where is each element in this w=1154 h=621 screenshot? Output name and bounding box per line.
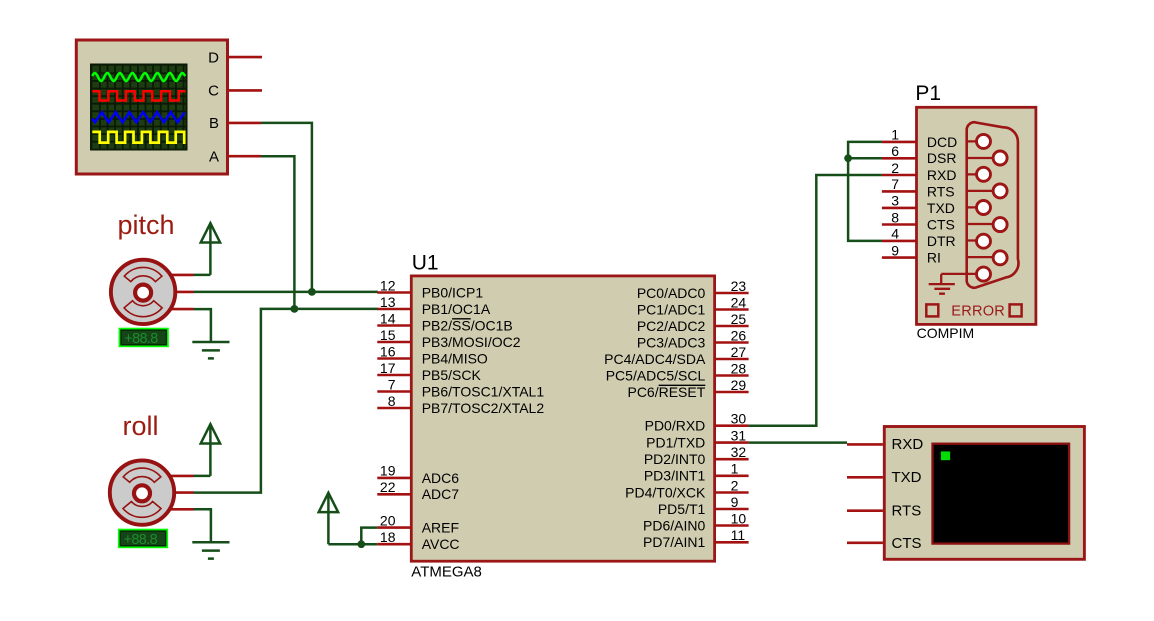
svg-text:PD6/AIN0: PD6/AIN0 [643,517,705,533]
P1 error indicator left square [926,304,938,316]
svg-text:DSR: DSR [927,150,957,166]
svg-text:DTR: DTR [927,233,956,249]
svg-text:30: 30 [731,411,747,427]
svg-text:TXD: TXD [927,200,955,216]
svg-text:17: 17 [380,360,396,376]
scope pin C stub [229,89,263,92]
svg-text:PB0/ICP1: PB0/ICP1 [422,284,484,300]
oscilloscope body [76,40,227,174]
svg-text:6: 6 [891,143,899,159]
svg-text:15: 15 [380,327,396,343]
svg-text:PD3/INT1: PD3/INT1 [644,468,706,484]
svg-text:U1: U1 [412,252,439,275]
terminal screen [933,444,1070,544]
svg-text:13: 13 [380,294,396,310]
U1 right pin stubs [715,293,749,542]
svg-text:31: 31 [731,427,747,443]
wire U1 PD0 to P1 RXD [749,175,882,426]
P1 pin names [927,134,957,266]
junction node AVCC [357,540,365,548]
svg-text:16: 16 [380,343,396,359]
svg-text:14: 14 [380,310,396,326]
scope trace blue triangle [92,112,184,122]
scope trace green sine [92,73,185,81]
terminal body [884,427,1084,560]
P1 internal ground [929,274,955,294]
wire roll wiper to U1 PB1 [194,309,378,493]
potentiometer roll pins [149,476,194,509]
svg-text:8: 8 [891,209,899,225]
scope trace yellow square [92,132,185,143]
svg-text:10: 10 [731,510,747,526]
svg-text:AREF: AREF [422,520,459,536]
P1 DB9 socket circles [977,134,1008,281]
terminal pin names [892,436,924,552]
svg-text:PC3/ADC3: PC3/ADC3 [637,334,706,350]
svg-text:RXD: RXD [892,436,924,453]
svg-text:PC5/ADC5/SCL: PC5/ADC5/SCL [606,367,706,383]
svg-text:COMPIM: COMPIM [917,325,975,341]
svg-text:18: 18 [380,529,396,545]
wire P1 DCD-DSR-DTR loop [848,142,882,241]
potentiometer pitch body [111,260,175,324]
oscilloscope screen [90,64,188,151]
svg-text:C: C [208,83,219,100]
svg-text:CTS: CTS [892,535,922,552]
svg-text:ATMEGA8: ATMEGA8 [411,564,482,581]
junction node DSR [844,154,852,162]
svg-text:roll: roll [123,411,159,441]
svg-text:PC2/ADC2: PC2/ADC2 [637,318,706,334]
roll value display +88.8 [119,530,167,548]
potentiometer pitch pins [150,275,194,309]
svg-text:26: 26 [731,327,747,343]
svg-text:RTS: RTS [892,503,922,520]
svg-text:ERROR: ERROR [951,303,1005,319]
svg-text:A: A [209,148,219,165]
svg-text:PD4/T0/XCK: PD4/T0/XCK [625,484,706,500]
svg-text:B: B [209,115,219,132]
svg-text:PD0/RXD: PD0/RXD [645,418,706,434]
svg-text:PD5/T1: PD5/T1 [658,501,706,517]
wire AVCC [328,543,377,546]
wire AREF [361,528,377,545]
svg-text:PC0/ADC0: PC0/ADC0 [637,285,706,301]
P1 DB9 shell [967,122,1019,287]
svg-text:+88.8: +88.8 [124,532,158,548]
scope trace red square [92,91,185,100]
svg-text:PC4/ADC4/SDA: PC4/ADC4/SDA [604,351,706,367]
svg-text:23: 23 [731,278,747,294]
svg-text:12: 12 [380,277,396,293]
svg-text:9: 9 [731,494,739,510]
U1 right pin names [604,285,706,550]
svg-text:2: 2 [891,160,899,176]
svg-text:PD7/AIN1: PD7/AIN1 [643,534,705,550]
svg-text:PB4/MISO: PB4/MISO [422,350,488,366]
wire pitch wiper to U1 PB0 [194,291,378,294]
IC U1 body [411,276,714,561]
P1 error indicator right square [1010,304,1022,316]
svg-text:7: 7 [891,176,899,192]
svg-text:PC6/RESET: PC6/RESET [627,384,705,400]
svg-text:19: 19 [380,463,396,479]
svg-text:25: 25 [731,311,747,327]
power arrow AVCC [319,493,338,544]
svg-text:PB6/TOSC1/XTAL1: PB6/TOSC1/XTAL1 [422,383,545,399]
svg-text:1: 1 [731,461,739,477]
svg-text:pitch: pitch [118,210,175,240]
svg-text:PB7/TOSC2/XTAL2: PB7/TOSC2/XTAL2 [422,400,545,416]
svg-text:PD2/INT0: PD2/INT0 [644,451,706,467]
U1 left pin stubs [377,293,411,545]
svg-text:22: 22 [380,479,396,495]
P1 pin stubs [882,142,917,258]
potentiometer roll body [110,460,174,524]
svg-text:2: 2 [731,477,739,493]
svg-text:PB3/MOSI/OC2: PB3/MOSI/OC2 [422,334,521,350]
svg-text:RI: RI [927,250,941,266]
overline RESET on PC6 [659,384,706,386]
terminal pin stubs [847,444,883,542]
svg-text:CTS: CTS [927,216,955,232]
wire scope B to U1 PB0 [261,123,312,292]
svg-text:PB1/OC1A: PB1/OC1A [422,301,491,317]
svg-text:PD1/TXD: PD1/TXD [646,435,705,451]
svg-text:ADC7: ADC7 [422,486,460,502]
svg-text:TXD: TXD [892,469,922,486]
svg-text:RXD: RXD [927,167,957,183]
svg-text:4: 4 [891,226,899,242]
COMPIM P1 body [917,107,1036,324]
svg-text:RTS: RTS [927,183,955,199]
svg-text:28: 28 [731,360,747,376]
svg-text:27: 27 [731,344,747,360]
svg-text:20: 20 [380,512,396,528]
power arrow roll [194,424,221,476]
svg-text:P1: P1 [915,82,941,105]
svg-text:1: 1 [891,127,899,143]
terminal cursor [941,451,950,460]
svg-text:ADC6: ADC6 [422,470,460,486]
svg-text:7: 7 [388,376,396,392]
svg-text:DCD: DCD [927,134,957,150]
svg-text:24: 24 [731,294,747,310]
svg-text:29: 29 [731,377,747,393]
wire U1 PD1 to terminal RXD [749,441,847,444]
svg-text:AVCC: AVCC [422,536,460,552]
ground roll [192,509,229,558]
wire scope A down [261,156,294,309]
pitch value display +88.8 [120,329,168,347]
P1 pin numbers [891,127,899,259]
svg-text:D: D [208,49,219,66]
svg-text:PB2/SS/OC1B: PB2/SS/OC1B [422,317,513,333]
junction node PB1 [291,305,299,313]
scope pin A stub [229,155,262,158]
junction node PB0 [308,288,316,296]
svg-text:PC1/ADC1: PC1/ADC1 [637,301,706,317]
svg-text:11: 11 [731,527,746,543]
svg-text:+88.8: +88.8 [124,331,158,347]
scope pin B stub [229,122,262,125]
U1 right pin numbers [731,278,747,543]
svg-text:9: 9 [891,242,899,258]
svg-text:8: 8 [388,393,396,409]
ground pitch [192,309,229,358]
svg-text:3: 3 [891,193,899,209]
P1 DB9 pin lines [941,141,993,274]
scope pin D stub [229,56,263,59]
overline SS on PB2 [452,318,471,320]
power arrow pitch [194,223,221,275]
svg-text:PB5/SCK: PB5/SCK [422,367,482,383]
svg-text:32: 32 [731,444,747,460]
U1 left pin names [422,284,545,552]
U1 left pin numbers [380,277,396,545]
